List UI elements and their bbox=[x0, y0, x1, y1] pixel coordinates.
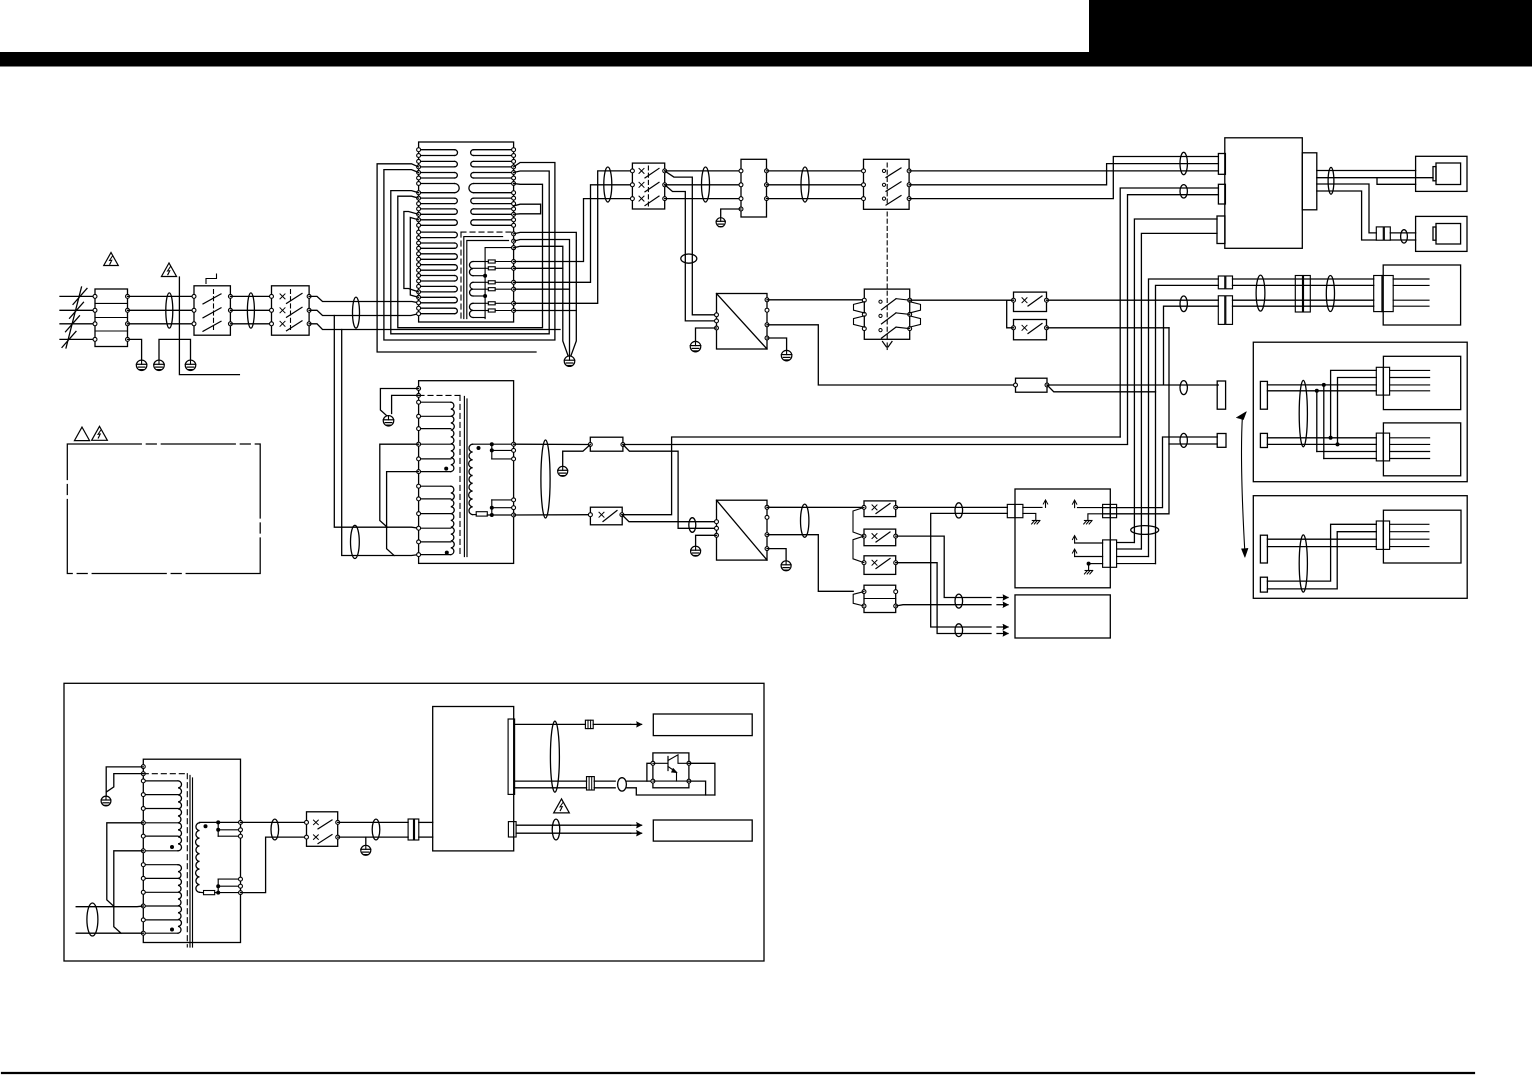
pair1 wire b bbox=[1156, 285, 1219, 563]
SW7 drive net bbox=[896, 536, 991, 597]
T1 left routing loop 1 bbox=[377, 164, 536, 352]
U2 frame to earth bbox=[696, 535, 717, 546]
ferrite bead FB5 bbox=[604, 167, 612, 202]
PB1 edge connector bbox=[508, 719, 514, 794]
U1 frame to earth bbox=[696, 328, 717, 341]
ferrite sleeve FB30 (tall) bbox=[550, 721, 559, 792]
earth ground E1 bbox=[136, 360, 147, 371]
unit A stub S2 bbox=[1260, 433, 1267, 447]
terminal block TB1 bbox=[95, 289, 128, 347]
chassis reference wire bbox=[179, 277, 239, 375]
connector stub CN301 bbox=[1217, 381, 1225, 409]
wires CN101 to SW3 bbox=[767, 170, 864, 172]
wire SW4 to relay RY2 bbox=[910, 299, 1014, 301]
earth ground E8 bbox=[383, 416, 394, 427]
wires relay to switch bbox=[230, 295, 271, 297]
tab3 wire a bbox=[1134, 219, 1217, 543]
T1 left inner link b bbox=[410, 218, 418, 298]
relay drive net a bbox=[931, 513, 1008, 627]
IGBT base branch bbox=[647, 763, 653, 781]
connector pass CP2 bbox=[1218, 296, 1225, 325]
block connector west bbox=[1007, 504, 1015, 517]
inter-unit arrow bbox=[1241, 415, 1244, 551]
ferrite bead FB6 on rectifier feed bbox=[681, 254, 697, 263]
PB1 output 1 bbox=[515, 723, 586, 725]
T3 primary winding bbox=[143, 780, 178, 782]
wire to T2 primary b bbox=[342, 330, 419, 556]
T1 left inner link a bbox=[404, 212, 419, 292]
relay coil branch bbox=[1169, 443, 1217, 445]
ferrite bead FB24 bbox=[955, 594, 963, 608]
T3 second lead to earth bbox=[107, 774, 144, 792]
ferrite bead FB12 bbox=[1328, 167, 1334, 194]
ferrite bead FB23 bbox=[955, 503, 963, 518]
ferrite bead FB3 bbox=[353, 297, 360, 328]
signal block A bbox=[1383, 265, 1460, 325]
TH1 aux output bbox=[1047, 385, 1156, 392]
unit B stub S3 bbox=[1260, 535, 1267, 563]
main switch SW1 (3-pole) bbox=[272, 286, 310, 335]
T3 secondary taps top bbox=[200, 821, 241, 823]
ferrite sleeve FB28 bbox=[271, 819, 279, 840]
switch SW8 bbox=[864, 556, 896, 575]
signal pair riser A bbox=[1120, 188, 1218, 437]
ferrite bead FB15 bbox=[1180, 296, 1187, 312]
T1 screen taps bbox=[514, 267, 563, 269]
block connector tab 3 bbox=[1217, 216, 1225, 244]
PB1 lower connector bbox=[508, 822, 516, 837]
SW4 linkage arrow bbox=[883, 342, 893, 347]
U2 output to heater bbox=[767, 535, 853, 592]
T1 right U-link bbox=[514, 204, 541, 214]
T2 secondary taps bottom bbox=[473, 514, 477, 516]
RY3 wire east bbox=[1047, 327, 1170, 329]
relay RY3 bbox=[1014, 320, 1047, 340]
connector CN404 bbox=[1376, 521, 1383, 549]
wire L1 to relay bbox=[128, 295, 195, 297]
earth ground E9 bbox=[558, 466, 568, 476]
caution note box (dashed) bbox=[67, 444, 260, 574]
ferrite bead FB9 bbox=[1180, 152, 1187, 174]
earth ground E6 bbox=[690, 341, 701, 352]
SW6 wire to relay block bbox=[896, 506, 1008, 508]
ferrite bead FB4 on T2 feed bbox=[351, 525, 360, 558]
wire pole2 riser bbox=[909, 164, 1218, 185]
title block (black header box) bbox=[1089, 0, 1532, 54]
ferrite sleeve FB20 bbox=[541, 440, 550, 518]
T3 top lead to earth bbox=[106, 767, 143, 796]
supply arrow b bbox=[1078, 507, 1103, 509]
junction dots bbox=[1322, 383, 1326, 387]
footer rule bbox=[2, 1072, 1474, 1074]
transformer T3 body bbox=[143, 759, 240, 942]
wire to T2 primary a bbox=[334, 316, 418, 529]
wire AC3 stepped bbox=[309, 324, 560, 330]
T1 bus wire b bbox=[514, 240, 570, 357]
wire AC1 stepped bbox=[309, 296, 419, 302]
wire T2 to SW5 bbox=[514, 514, 591, 516]
earth ground E3 bbox=[185, 360, 196, 371]
ferrite bead FB11 bbox=[1180, 433, 1187, 447]
T1 bus wire a bbox=[514, 232, 577, 355]
connector CN202 housing bbox=[1416, 216, 1467, 251]
deflection unit A enclosure bbox=[1253, 342, 1467, 482]
board 1 stubs bbox=[1390, 369, 1430, 371]
power transformer T1 body bbox=[419, 142, 514, 322]
branch to rectifier a bbox=[665, 171, 717, 315]
T1 aux winding a bbox=[469, 262, 473, 276]
interlock linkage (dashed) bbox=[886, 163, 888, 206]
connector CN402 bbox=[1376, 367, 1383, 395]
block connector east top bbox=[1103, 504, 1111, 517]
connector shield to earth bbox=[721, 209, 741, 218]
ferrite bead FB21 bbox=[689, 518, 696, 533]
heater block HB1 bbox=[864, 585, 896, 612]
warning triangle shock bbox=[92, 426, 108, 440]
relay block return b bbox=[1103, 328, 1169, 514]
thermistor TH1 bbox=[1016, 378, 1048, 392]
transformer T2 body bbox=[419, 381, 514, 564]
earth ground E11 bbox=[781, 561, 791, 571]
T1 aux bus with taps bbox=[485, 248, 513, 319]
warning triangle (shock hazard) left bbox=[104, 253, 119, 266]
block right tab bbox=[1302, 153, 1317, 210]
ferrite sleeve FB26 (horizontal) bbox=[1131, 526, 1159, 535]
U1 minus to earth bbox=[767, 338, 787, 350]
signal A wire bbox=[622, 437, 1120, 515]
SW7-SW8 link bbox=[853, 536, 864, 563]
ferrite bead FB17 bbox=[1326, 276, 1334, 312]
mains selector SW4 (3-pole plug block) bbox=[864, 289, 909, 339]
earth ground E2 bbox=[154, 360, 165, 371]
T2 core (dashed) bbox=[419, 394, 460, 396]
T1 aux out to SW2 pole1 bbox=[514, 171, 633, 303]
T2 top leads to earth bbox=[380, 389, 418, 416]
microcontroller block bbox=[1015, 595, 1110, 638]
connector pass CP3 bbox=[1295, 276, 1302, 313]
unit B harness bbox=[1267, 538, 1376, 540]
block connector east bottom bbox=[1103, 540, 1111, 567]
earth ground E13 bbox=[361, 845, 371, 855]
branch to rectifier b bbox=[665, 185, 717, 321]
T2 secondary terminals bbox=[512, 442, 516, 446]
T1 aux winding c bbox=[469, 303, 473, 317]
AC outlet box 1 bbox=[653, 714, 752, 736]
wires CP1-CP3 bbox=[1233, 278, 1374, 280]
T1 fuse links bbox=[488, 260, 495, 263]
ferrite sleeve FB19 bbox=[1299, 535, 1307, 592]
wire T3 to SW9 bbox=[241, 821, 306, 823]
T3 secondary terminals bbox=[239, 820, 243, 824]
SW6-SW7 link bbox=[853, 507, 864, 536]
unit B board bbox=[1383, 510, 1461, 563]
SW9 output wires bbox=[338, 821, 408, 823]
U1 aux output bbox=[767, 325, 1016, 385]
F1 branch to U2 bbox=[623, 445, 717, 529]
T1 left routing loop 4 bbox=[398, 184, 543, 328]
AC outlet box 2 bbox=[653, 820, 752, 841]
switch SW9 (2-pole) bbox=[307, 812, 338, 847]
T1 auxiliary rails bbox=[464, 237, 503, 319]
IGBT module Q1 bbox=[653, 753, 689, 788]
deflection unit B enclosure bbox=[1253, 496, 1467, 599]
unit A board 1 bbox=[1383, 356, 1460, 409]
T1 bus wire c bbox=[514, 246, 569, 355]
ferrite bead FB2 bbox=[247, 293, 254, 328]
earth ground E10 bbox=[691, 546, 701, 556]
T2 secondary winding bbox=[469, 444, 473, 514]
earth stub bbox=[365, 837, 367, 845]
power board PB1 bbox=[433, 707, 514, 851]
crossover verticals bbox=[1316, 391, 1318, 452]
T3 core (dashed) bbox=[143, 773, 187, 775]
ferrite bead FB7 bbox=[702, 167, 710, 202]
U2 minus to earth bbox=[767, 549, 786, 561]
wire SW2 pole2 east bbox=[665, 184, 741, 186]
switch SW7 bbox=[864, 529, 896, 546]
east bottom connector wires bbox=[1117, 542, 1135, 544]
signal B wire bbox=[623, 444, 1128, 446]
rectifier/converter U2 bbox=[717, 500, 768, 560]
wires to IGBT bbox=[626, 780, 653, 782]
T1 aux out to SW2 pole3 bbox=[514, 199, 633, 262]
relay control block bbox=[1015, 489, 1110, 588]
supply arrow c bbox=[1075, 542, 1103, 544]
T2 secondary taps top bbox=[473, 443, 514, 445]
T3 wrap link 1 bbox=[107, 823, 144, 907]
U1 output to SW4 bbox=[767, 299, 864, 301]
warning triangle (shock hazard) mid bbox=[161, 263, 176, 277]
connector pass CP1 bbox=[1218, 276, 1225, 289]
board 2 stubs bbox=[1390, 437, 1430, 439]
degauss switch SW2 (3-pole, NC) bbox=[632, 163, 664, 209]
AC mains cable entry with slashes bbox=[60, 295, 95, 297]
tab3 wire b bbox=[1141, 233, 1217, 549]
F1 input from earth leg bbox=[563, 445, 591, 467]
U2 output to SW6 bbox=[767, 506, 864, 508]
T3 phase dots bbox=[170, 845, 174, 849]
T1 internal screen (dashed) bbox=[461, 231, 514, 233]
T3 secondary taps bottom bbox=[200, 891, 204, 893]
junction dot bbox=[483, 294, 487, 298]
logic ground c bbox=[1089, 563, 1103, 565]
earth ground E7 bbox=[781, 350, 792, 361]
block A stubs bbox=[1393, 278, 1429, 280]
ferrite bead FB31 bbox=[618, 778, 627, 791]
ferrite bead FB25 bbox=[955, 624, 963, 637]
rectifier/converter U1 bbox=[717, 294, 768, 350]
main control block bbox=[1225, 138, 1303, 249]
wire pole3 riser bbox=[909, 157, 1218, 199]
connector CN401 bbox=[1374, 276, 1382, 312]
ferrite bead FB13 bbox=[1401, 230, 1408, 243]
ferrite sleeve FB18 bbox=[1299, 380, 1307, 446]
HB1 drive net bbox=[896, 605, 991, 606]
supply arrow d bbox=[1075, 556, 1103, 558]
ground link wire bbox=[159, 339, 191, 360]
pass-through PT2 bbox=[587, 777, 595, 790]
wire L2 to relay bbox=[128, 309, 195, 311]
ferrite sleeve FB22 bbox=[801, 504, 809, 537]
fuse F1 bbox=[590, 437, 623, 451]
logic ground a bbox=[1023, 513, 1036, 519]
SW8 drive net bbox=[896, 563, 991, 634]
connector CN202 link bbox=[1376, 227, 1383, 240]
connector CN403 bbox=[1376, 433, 1383, 461]
earth ground E5 bbox=[716, 218, 725, 227]
pass-through PT1 bbox=[585, 720, 593, 728]
warning triangle plain bbox=[74, 427, 89, 441]
earth ground E12 bbox=[101, 796, 111, 806]
earth ground E4 (T1 screen) bbox=[564, 356, 575, 367]
T2 wrap link 2 bbox=[387, 472, 419, 556]
HB1 wedges bbox=[853, 592, 864, 606]
option unit enclosure bbox=[64, 683, 764, 961]
connector CB1 bbox=[408, 819, 413, 840]
wire L3 to relay bbox=[128, 323, 195, 325]
wire AC2 stepped bbox=[309, 310, 419, 315]
block connector tab 2 bbox=[1218, 184, 1225, 204]
T2 screen rails bbox=[463, 396, 465, 556]
supply arrow a bbox=[1023, 506, 1042, 508]
ferrite bead FB1 bbox=[166, 293, 173, 328]
header rule (black bar) bbox=[0, 52, 1532, 67]
relay RY2 bbox=[1014, 292, 1047, 311]
T2 primary winding bbox=[419, 401, 451, 403]
PB1 output pair bbox=[515, 780, 587, 782]
T1 primary winding (left) bbox=[419, 150, 460, 226]
block connector tab 1 bbox=[1218, 154, 1225, 175]
T1 right bus terminals bbox=[512, 232, 516, 236]
TH1 output bbox=[1047, 384, 1218, 386]
wire SW2 pole1 east bbox=[665, 170, 741, 172]
ferrite bead FB14 bbox=[1180, 381, 1187, 395]
unit A harness wires bbox=[1267, 384, 1376, 386]
T1 secondary winding (right) bbox=[469, 150, 514, 226]
switch SW6 bbox=[864, 501, 896, 517]
T3 primary stubs bbox=[76, 905, 143, 908]
pair1 wire a bbox=[1149, 279, 1219, 557]
junction dot bbox=[483, 274, 487, 278]
ferrite bead FB10 bbox=[1180, 185, 1187, 198]
relay actuator symbol bbox=[206, 274, 217, 284]
T3 secondary winding bbox=[196, 823, 200, 893]
wire T2 to fuse F1 bbox=[514, 443, 591, 445]
logic ground b bbox=[1088, 514, 1103, 520]
connector CN201 housing bbox=[1416, 156, 1467, 191]
ferrite sleeve FB27 bbox=[87, 903, 98, 936]
unit B stub S4 bbox=[1260, 577, 1267, 592]
IGBT return loop bbox=[689, 763, 715, 795]
connector stub CN302 bbox=[1217, 434, 1226, 448]
T1 left routing loop 2 bbox=[384, 163, 555, 341]
T2 phase dots bbox=[444, 467, 448, 471]
ferrite bead FB8 bbox=[801, 167, 809, 202]
unit A board 2 bbox=[1383, 423, 1460, 476]
PB1 lower pair bbox=[516, 824, 631, 826]
RY2 wire east bbox=[1047, 299, 1219, 301]
relay block return a bbox=[1103, 437, 1218, 508]
interlock switch SW3 (3-pole) bbox=[864, 159, 910, 209]
unit B stubs bbox=[1390, 523, 1429, 525]
T1 aux winding b bbox=[470, 282, 473, 296]
wire SW2 pole3 east bbox=[665, 198, 741, 200]
T3 screen rails bbox=[189, 776, 191, 948]
connector CN101 bbox=[741, 159, 767, 217]
ferrite sleeve FB29 bbox=[372, 819, 380, 840]
wire N to earth bbox=[128, 339, 142, 360]
SW5 branch to U2 bbox=[622, 515, 717, 522]
wire pole1 to main unit bbox=[909, 170, 1218, 172]
block output wires bbox=[1317, 170, 1416, 172]
ferrite bead FB32 bbox=[552, 819, 560, 840]
T1 left routing loop 3 bbox=[391, 171, 549, 334]
ferrite sleeve FB16 bbox=[1256, 275, 1265, 311]
T3 wrap link 2 bbox=[114, 851, 144, 933]
T1 aux out to SW2 pole2 bbox=[514, 185, 633, 282]
pair2 wire b bbox=[1164, 306, 1219, 385]
switch SW5 bbox=[590, 507, 622, 525]
SW4 plug wedges bbox=[854, 302, 865, 313]
relay RY1 (mains relay) bbox=[194, 286, 230, 335]
warning triangle (hot) bbox=[554, 799, 570, 813]
T2 wrap link 1 bbox=[380, 444, 419, 527]
RY2-RY3 link bbox=[1007, 300, 1014, 328]
signal pair riser B bbox=[1128, 195, 1219, 444]
unit A stub S1 bbox=[1260, 381, 1267, 409]
